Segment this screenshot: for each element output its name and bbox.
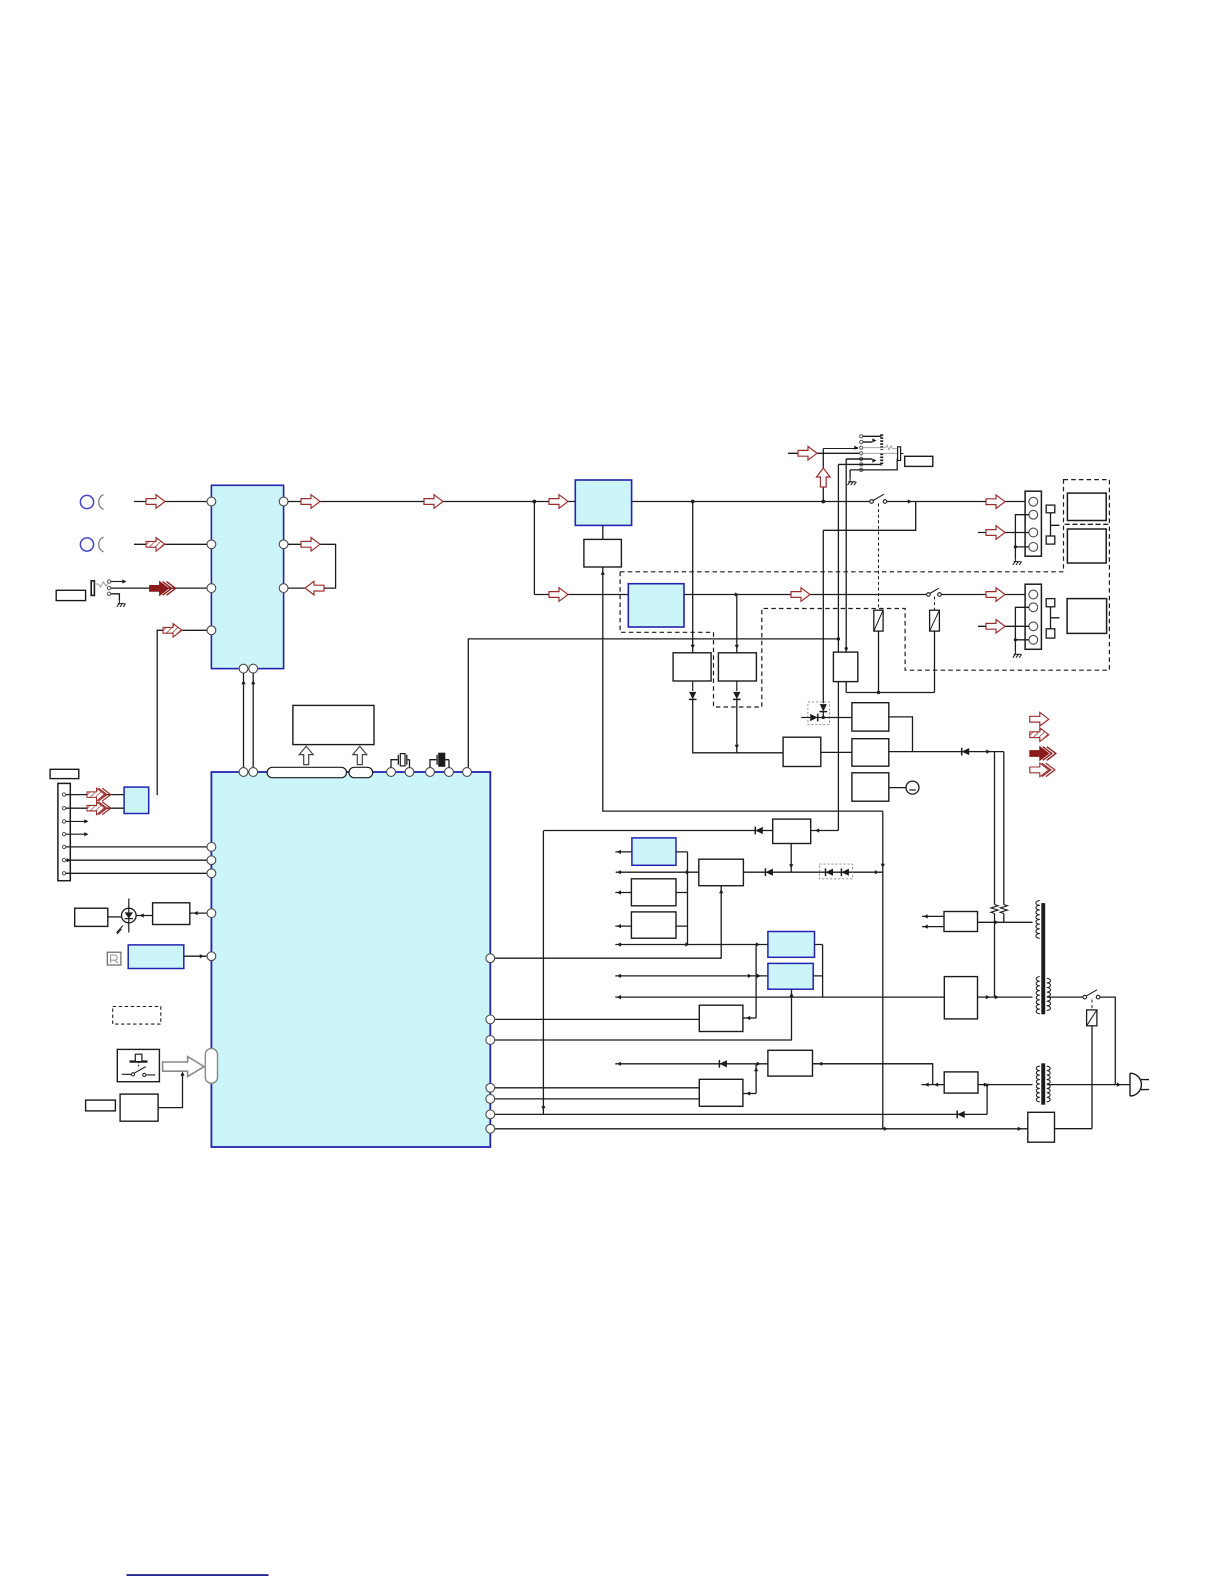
dashed link switch1 bbox=[878, 504, 880, 611]
crystal X1 bbox=[391, 755, 410, 768]
block power amp F bbox=[768, 963, 813, 989]
port U1 pill 1 bbox=[267, 767, 346, 777]
pin IC1 out rec bbox=[279, 540, 288, 549]
diode mute bbox=[755, 827, 763, 834]
port U1 key pill bbox=[205, 1049, 217, 1084]
pin U1 xtal1 bbox=[387, 768, 396, 777]
wire comparator stack out bbox=[889, 751, 1004, 753]
wire main to driver L bbox=[692, 502, 694, 653]
wire H vertical bbox=[755, 945, 757, 1019]
terminal B sq2 bbox=[1046, 629, 1055, 638]
wire U1 to H bbox=[495, 1018, 700, 1020]
headphone jack pin 4 bbox=[860, 452, 863, 455]
block key switch bbox=[117, 1049, 159, 1081]
wire connector A ground bbox=[1014, 547, 1016, 559]
phones jack sleeve wire bbox=[111, 594, 120, 601]
label box LED bbox=[75, 908, 108, 926]
wire diodes to regulator bbox=[693, 699, 783, 752]
diode block I line bbox=[719, 1060, 727, 1067]
wire reset up bbox=[158, 1073, 182, 1108]
phones jack plug body bbox=[91, 581, 94, 596]
pin U1 cap1 bbox=[426, 768, 435, 777]
block driver R bbox=[718, 653, 756, 681]
wire switch to corner bbox=[1100, 997, 1115, 1085]
diode under driver L bbox=[692, 681, 694, 691]
block audio A bbox=[632, 838, 676, 865]
pin IC1 bus A bbox=[239, 664, 248, 673]
phones jack squiggle bbox=[94, 582, 108, 587]
pin IC1 out main bbox=[279, 497, 288, 506]
fuse resistor power bbox=[1087, 1010, 1097, 1026]
jack plate upper bbox=[880, 434, 883, 450]
block filter M bbox=[944, 1072, 978, 1093]
block reset bbox=[120, 1094, 158, 1121]
block mute driver bbox=[773, 819, 811, 843]
block display bbox=[293, 705, 374, 744]
wire jack p6 down bbox=[837, 464, 839, 830]
connector speaker A body bbox=[1025, 491, 1041, 556]
wire monitor in vertical bbox=[157, 630, 207, 795]
jack contact wire p6 bbox=[838, 463, 881, 465]
wire dock p3 bbox=[66, 820, 86, 822]
terminal A sq2 bbox=[1046, 536, 1055, 544]
wire AC line bbox=[1047, 1084, 1130, 1086]
dock pin 6 bbox=[62, 859, 65, 862]
wire U1 standby bbox=[495, 1128, 1028, 1130]
node main jack tap bbox=[821, 500, 825, 504]
block speaker R bbox=[1067, 599, 1107, 634]
arrow lower out bbox=[986, 588, 1005, 602]
pin U1 xtal2 bbox=[405, 768, 414, 777]
port U1 pill 2 bbox=[349, 767, 373, 777]
arrow L input bbox=[146, 495, 165, 509]
RCA jack L (input) bbox=[80, 495, 93, 508]
wire to block B bbox=[615, 892, 631, 894]
block protect regulator bbox=[783, 737, 821, 766]
wire to block F bbox=[615, 975, 768, 977]
block volume IC2 bbox=[575, 480, 631, 525]
wire lower line right bbox=[941, 594, 1025, 596]
transformer T1 core bbox=[1042, 904, 1045, 1014]
ground phones jack bbox=[117, 601, 126, 607]
arrow headphone up bbox=[817, 468, 831, 487]
pin U1 cap2 bbox=[445, 768, 454, 777]
dock pin 3 bbox=[62, 820, 65, 823]
wire secondary to switch bbox=[1047, 996, 1085, 998]
node main branch bbox=[533, 500, 537, 504]
connector A pin1 bbox=[1029, 497, 1038, 506]
wire K2 in1 bbox=[922, 915, 944, 917]
pin IC1 phones bbox=[207, 584, 216, 593]
arrow monitor in bbox=[163, 624, 182, 638]
pin U1 feedback bbox=[463, 768, 472, 777]
legend arrow phones signal bbox=[1030, 747, 1056, 761]
pin U1 stby bbox=[486, 1124, 495, 1133]
legend arrow signal bbox=[1030, 712, 1049, 726]
key switch symbol bbox=[130, 1060, 148, 1062]
wire rectifier out bbox=[978, 996, 1033, 998]
wire mute out bbox=[811, 830, 839, 832]
resistor rail B bbox=[1000, 905, 1007, 914]
terminal B sq1 bbox=[1046, 599, 1055, 607]
ground headphone jack bbox=[849, 470, 851, 479]
wire to block I bbox=[615, 1063, 932, 1065]
arrow lower 2 bbox=[791, 588, 810, 602]
label box reset bbox=[86, 1100, 116, 1111]
AC plug bbox=[1130, 1073, 1141, 1096]
wire comparator1 out bbox=[889, 717, 913, 752]
pin U1 osc bbox=[486, 1015, 495, 1024]
wire rectifier line bbox=[615, 996, 944, 998]
LED indicator bbox=[122, 908, 137, 923]
jack contact wire p5 bbox=[846, 458, 872, 460]
wire filter corner bbox=[813, 1064, 933, 1085]
relay coil 2 bbox=[930, 610, 940, 631]
dash-dot box twin diodes bbox=[819, 864, 852, 879]
phones jack contact 1 bbox=[107, 580, 110, 583]
wire lower line left bbox=[534, 594, 628, 596]
dashed link power switch bbox=[1091, 1000, 1093, 1010]
terminal A link bbox=[1051, 513, 1060, 536]
block relay drive I bbox=[768, 1050, 813, 1076]
pin IC1 monitor bbox=[207, 626, 216, 635]
wire L input bbox=[134, 501, 207, 503]
wire regulator to comparator bbox=[821, 751, 852, 753]
connector B pin1 bbox=[1029, 590, 1038, 599]
wire J vertical bbox=[755, 1064, 757, 1094]
dashed link switch2 bbox=[934, 597, 936, 611]
connector A pin3 bbox=[1029, 528, 1038, 537]
wire lower line mid bbox=[684, 594, 928, 596]
wire feedback to main IC bbox=[468, 639, 838, 768]
arrow main 3 bbox=[549, 495, 568, 509]
block LED driver bbox=[153, 903, 190, 925]
pin U1 pdet bbox=[486, 1110, 495, 1119]
wire standby out bbox=[1055, 1128, 1093, 1130]
resistor rail A bbox=[991, 905, 998, 914]
wire relay2 down bbox=[934, 631, 936, 692]
wire U1 to F bottom bbox=[495, 989, 792, 1040]
dock pin 7 bbox=[62, 872, 65, 875]
arrow lower 1 bbox=[549, 588, 568, 602]
block comparator 3 bbox=[852, 773, 889, 801]
wire comparator3 out bbox=[889, 787, 906, 789]
wire dock p2 bbox=[66, 807, 124, 809]
arrow connector B in2 bbox=[986, 620, 1005, 634]
pin U1 dock5 bbox=[207, 843, 216, 852]
wire to block C bbox=[615, 925, 631, 927]
transformer T1 secondary left winding bbox=[1036, 977, 1040, 1014]
capacitor C1 bbox=[430, 755, 449, 768]
block detector under IC2 bbox=[584, 539, 622, 567]
wire ABC outputs bbox=[676, 852, 688, 945]
RCA jack R bracket bbox=[99, 537, 104, 552]
headphone jack pin 2 bbox=[860, 440, 863, 443]
transformer T2 left winding bbox=[1036, 1066, 1039, 1102]
diode stack out bbox=[962, 748, 970, 755]
wire mute branch vertical bbox=[542, 831, 544, 1114]
pin U1 ir bbox=[207, 952, 216, 961]
transformer T2 core bbox=[1042, 1064, 1045, 1104]
pin IC1 ret bbox=[279, 584, 288, 593]
wire rec out loop bbox=[288, 544, 336, 588]
RCA jack R (input) bbox=[80, 538, 93, 551]
wire branch lower bbox=[533, 502, 535, 595]
wire LED label bbox=[108, 916, 122, 918]
pin U1 t2 bbox=[486, 1095, 495, 1104]
wire headphone feed bbox=[788, 452, 860, 454]
arrow dock p2 bbox=[87, 802, 111, 815]
arrow rec out bbox=[301, 538, 320, 552]
block speaker L upper bbox=[1067, 493, 1106, 520]
dash-dot box jack diodes bbox=[808, 702, 830, 725]
connector A pin4 bbox=[1029, 543, 1038, 552]
twin diode 1 bbox=[826, 869, 834, 876]
terminal A sq1 bbox=[1046, 505, 1055, 513]
wire J out bbox=[743, 1093, 756, 1095]
switch power bbox=[1083, 995, 1087, 999]
wire jack tip branch bbox=[822, 449, 824, 502]
diode power detect bbox=[957, 1111, 965, 1118]
negative terminal symbol bbox=[906, 781, 919, 794]
IR receiver icon bbox=[107, 952, 121, 965]
pin U1 dock6 bbox=[207, 856, 216, 865]
dashed box speaker L bbox=[1064, 480, 1110, 525]
dock pin 2 bbox=[62, 807, 65, 810]
wire U1 power detect bbox=[495, 1113, 988, 1115]
block power K2 bbox=[944, 912, 978, 932]
block standby L bbox=[1028, 1112, 1055, 1142]
block audio C bbox=[631, 912, 676, 938]
diode under driver R bbox=[736, 681, 738, 691]
block driver L bbox=[673, 653, 711, 681]
phones jack contact 3 bbox=[107, 592, 110, 595]
label box dock connector bbox=[50, 769, 79, 778]
block surround IC3 bbox=[628, 584, 684, 627]
RCA jack L bracket bbox=[99, 495, 104, 510]
twin diode 2 bbox=[841, 869, 849, 876]
jack plug thin outline bbox=[863, 445, 897, 450]
node main mid bbox=[691, 500, 695, 504]
wire connector B pin2 return bbox=[1015, 607, 1029, 640]
diode jack vertical bbox=[822, 530, 824, 703]
wire K2 to primary bbox=[978, 921, 1033, 923]
switch muting 2 bbox=[927, 593, 931, 597]
dock pin 4 bbox=[62, 833, 65, 836]
dashed board outline polygon bbox=[620, 524, 1109, 707]
ground connector A bbox=[1013, 559, 1022, 565]
rail A continue bbox=[994, 922, 996, 997]
headphone jack pin 7 bbox=[860, 468, 863, 471]
wire U1 to J2 bbox=[495, 1098, 700, 1100]
block rectifier K bbox=[944, 977, 977, 1019]
block power amp E bbox=[768, 932, 815, 958]
wire to block D bbox=[616, 871, 699, 873]
wire dock p5 bbox=[66, 846, 207, 848]
wire IR sensor bbox=[184, 955, 207, 957]
headphone jack pin 3 bbox=[860, 446, 863, 449]
pin U1 bus B bbox=[249, 768, 258, 777]
wire IC2 to detector bbox=[602, 525, 604, 539]
wire connector A in2 bbox=[978, 532, 1029, 534]
wire detector down bbox=[603, 567, 883, 811]
wire H out bbox=[743, 1017, 756, 1019]
pin IC1 in L bbox=[207, 497, 216, 506]
block speaker L lower bbox=[1067, 529, 1106, 563]
wire T2 tap down bbox=[986, 1085, 988, 1115]
wire LED driver in bbox=[190, 912, 207, 914]
wire lower to driver R bbox=[736, 595, 738, 653]
wire mute block bottom bbox=[790, 844, 792, 873]
wire jack p5 down bbox=[845, 459, 847, 652]
phones jack contact1 wire bbox=[111, 581, 124, 583]
transformer T2 right winding bbox=[1047, 1066, 1050, 1102]
dock pin 5 bbox=[62, 845, 65, 848]
label box headphone bbox=[905, 456, 933, 466]
pin U1 bus A bbox=[239, 768, 248, 777]
arrow main 1 bbox=[301, 495, 320, 509]
jack sleeve wire p7 bbox=[850, 459, 897, 470]
diode jack horizontal bbox=[801, 717, 810, 719]
block timer J bbox=[699, 1079, 743, 1106]
transformer T1 secondary right winding bbox=[1047, 978, 1051, 1010]
footer rule bbox=[127, 1574, 269, 1576]
wire to block E bbox=[615, 944, 768, 946]
arrow headphone bbox=[798, 447, 817, 461]
diode D out bbox=[765, 869, 773, 876]
phones jack contact 2 bbox=[107, 586, 110, 589]
wire main line mid bbox=[632, 501, 872, 503]
wire dock p4 bbox=[66, 833, 86, 835]
arrow main 2 bbox=[424, 495, 443, 509]
pin U1 t1 bbox=[486, 1083, 495, 1092]
arrow rec return bbox=[305, 581, 324, 595]
terminal B link bbox=[1051, 607, 1060, 629]
connector B pin4 bbox=[1029, 635, 1038, 644]
arrow R input bbox=[146, 538, 165, 552]
phones wire to block bbox=[111, 587, 207, 589]
wire K2 in2 bbox=[922, 926, 944, 928]
wire LED to driver bbox=[136, 915, 153, 917]
wire muting loop bbox=[823, 502, 915, 531]
arrow dock p1 bbox=[87, 788, 111, 801]
wire main line right bbox=[887, 501, 1025, 503]
legend arrow rec signal bbox=[1030, 728, 1049, 742]
jack plug sleeve bar bbox=[898, 447, 901, 461]
pin IC1 bus B bbox=[249, 664, 258, 673]
wire to block A bbox=[615, 851, 632, 853]
arrow display 1 bbox=[299, 746, 313, 764]
dashed option box bbox=[113, 1007, 161, 1025]
relay coil 1 bbox=[874, 610, 883, 631]
transformer T1 primary winding bbox=[1036, 901, 1040, 939]
wire D output bbox=[743, 871, 883, 873]
block audio B bbox=[631, 879, 676, 906]
block osc H bbox=[699, 1005, 743, 1031]
jack plate lower bbox=[880, 454, 883, 466]
wire relay1 down bbox=[878, 631, 880, 692]
dock connector strip bbox=[58, 783, 70, 880]
rail A vertical bbox=[994, 752, 996, 905]
pin U1 dock7 bbox=[207, 869, 216, 878]
wire connector A pin2 return bbox=[1015, 515, 1029, 547]
wire relay common bbox=[846, 692, 934, 694]
headphone jack pin 1 bbox=[860, 435, 863, 438]
bus wires IC1 to U1 bbox=[243, 673, 245, 768]
headphone jack pin 6 bbox=[860, 463, 863, 466]
wire R input bbox=[134, 543, 207, 545]
wire T2 left bbox=[922, 1084, 945, 1086]
wire detector rail vertical bbox=[882, 811, 884, 1129]
block input selector IC1 bbox=[211, 485, 283, 668]
wire connector B in2 bbox=[978, 625, 1029, 627]
wire U1 to J1 bbox=[495, 1087, 700, 1089]
pin U1 led bbox=[207, 909, 216, 918]
pin IC1 in R bbox=[207, 540, 216, 549]
label box phones bbox=[56, 590, 85, 600]
pin U1 pwm bbox=[486, 1036, 495, 1045]
LED emission arrows bbox=[117, 926, 123, 935]
arrow phones (record out) bbox=[150, 582, 176, 596]
rail B vertical bbox=[1003, 752, 1005, 905]
connector A pin2 bbox=[1029, 510, 1038, 519]
arrow main out bbox=[986, 495, 1005, 509]
wire dock p7 bbox=[66, 872, 207, 874]
wire main line left bbox=[288, 501, 575, 503]
block comparator 1 bbox=[852, 703, 889, 731]
wire EF right common bbox=[813, 945, 822, 998]
headphone jack pin 5 bbox=[860, 457, 863, 460]
jack contact wire p1 bbox=[863, 435, 882, 437]
wire connector B ground bbox=[1014, 640, 1016, 652]
block comparator 2 bbox=[852, 739, 889, 767]
jack contact wire p2 bbox=[863, 441, 872, 443]
main system IC U1 bbox=[211, 772, 490, 1147]
arrow connector A in2 bbox=[986, 526, 1005, 540]
ground connector B bbox=[1013, 651, 1022, 657]
pin U1 audio out bbox=[486, 954, 495, 963]
block mix D bbox=[699, 859, 744, 886]
arrow display 2 bbox=[353, 746, 367, 764]
dock pin 1 bbox=[62, 793, 65, 796]
wire dock p6 bbox=[66, 859, 207, 861]
connector B pin3 bbox=[1029, 622, 1038, 631]
wire mute line bbox=[543, 830, 772, 832]
arrow key to U1 bbox=[163, 1057, 205, 1077]
connector speaker B body bbox=[1025, 584, 1041, 649]
wire dock p1 bbox=[66, 794, 124, 796]
block IR remote sensor bbox=[128, 945, 184, 969]
block headphone amp bbox=[833, 652, 857, 682]
switch muting 1 bbox=[870, 500, 874, 504]
block dock interface bbox=[124, 787, 149, 813]
wire relay common up bbox=[845, 682, 847, 693]
legend arrow monitor signal bbox=[1030, 763, 1055, 777]
connector B pin2 bbox=[1029, 603, 1038, 612]
wire fuse down bbox=[1091, 1026, 1093, 1129]
wire D bottom to U1 bbox=[495, 886, 722, 959]
